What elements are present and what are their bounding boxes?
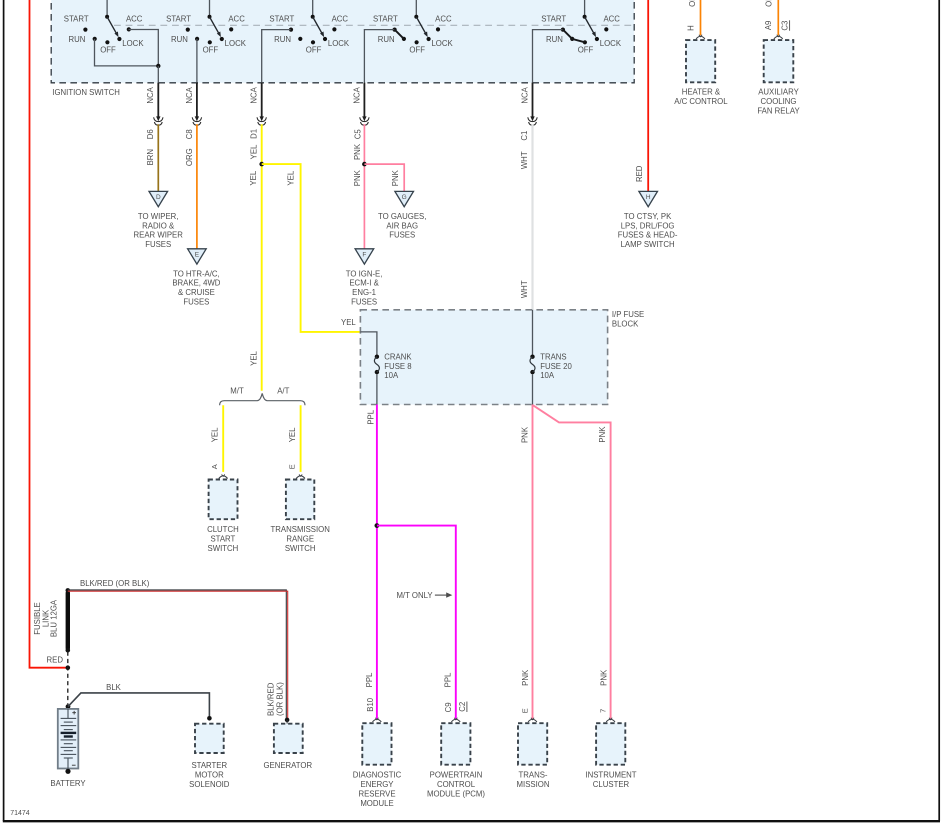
ignition switch pole 2 (RUN feed) (166, 0, 247, 55)
svg-text:71474: 71474 (10, 810, 30, 817)
svg-text:10A: 10A (384, 371, 399, 380)
svg-text:PNK: PNK (521, 426, 530, 443)
transmission box (518, 723, 547, 765)
powertrain control module box (441, 723, 470, 765)
svg-text:RUN: RUN (69, 35, 86, 44)
svg-text:TO IGN-E,: TO IGN-E, (346, 269, 383, 278)
svg-text:LOCK: LOCK (328, 39, 350, 48)
svg-text:WHT: WHT (520, 280, 529, 298)
svg-text:MODULE (PCM): MODULE (PCM) (427, 790, 485, 799)
svg-text:SOLENOID: SOLENOID (189, 780, 230, 789)
svg-text:RED: RED (635, 165, 644, 182)
svg-text:C8: C8 (185, 129, 194, 139)
wire BLK battery to starter solenoid (68, 693, 209, 718)
wire RED from battery up left side (30, 0, 66, 668)
svg-text:BRN: BRN (146, 149, 155, 165)
generator box (274, 724, 303, 753)
pole 3 output wire (262, 30, 291, 83)
svg-text:INSTRUMENT: INSTRUMENT (585, 771, 636, 780)
svg-text:START: START (166, 15, 191, 24)
wire ORG to auxiliary cooling fan relay (777, 0, 779, 35)
svg-text:RESERVE: RESERVE (358, 790, 395, 799)
svg-text:ORG: ORG (764, 0, 773, 7)
svg-text:BATTERY: BATTERY (50, 779, 86, 788)
svg-text:PNK: PNK (521, 669, 530, 686)
wire WHT C1 (to I/P fuse block) (531, 124, 533, 310)
connector triangle G (395, 191, 414, 206)
junction at generator (285, 718, 290, 723)
junction PNK branch (362, 162, 367, 167)
wire YEL to transmission range switch (300, 405, 302, 472)
svg-text:NCA: NCA (250, 86, 259, 103)
brace M/T A/T split (220, 393, 305, 405)
svg-text:NCA: NCA (520, 86, 529, 103)
svg-text:PNK: PNK (598, 426, 607, 443)
svg-text:RUN: RUN (274, 35, 291, 44)
svg-text:OFF: OFF (100, 46, 116, 55)
svg-text:OFF: OFF (306, 46, 322, 55)
connector at instrument cluster (pin 7) (606, 719, 615, 722)
wire YEL branch to I/P fuse block (262, 164, 361, 332)
svg-text:TRANS-: TRANS- (518, 771, 547, 780)
auxiliary cooling fan relay box (764, 40, 794, 82)
svg-text:YEL: YEL (250, 350, 259, 365)
pole 2 output wire (196, 39, 198, 83)
svg-text:SWITCH: SWITCH (208, 544, 239, 553)
dashed link battery positive (67, 652, 69, 705)
svg-text:7: 7 (598, 709, 607, 713)
svg-text:ACC: ACC (435, 15, 452, 24)
pole 5 output wire (533, 30, 563, 83)
svg-text:RUN: RUN (171, 35, 188, 44)
wire RED (battery feed to headlamp switch) (647, 0, 649, 195)
svg-text:NCA: NCA (185, 86, 194, 103)
svg-text:IGNITION SWITCH: IGNITION SWITCH (52, 88, 120, 97)
svg-text:E: E (287, 464, 296, 469)
fuse CRANK FUSE 8 10A (375, 355, 379, 359)
junction YEL branch (259, 162, 264, 167)
svg-text:ORG: ORG (185, 148, 194, 166)
heater & A/C control box (686, 40, 715, 82)
svg-text:10A: 10A (540, 371, 555, 380)
ignition switch pole 4 (START feed, RUN bridge) (373, 0, 454, 55)
junction pole 1 output (156, 64, 160, 68)
svg-text:C3: C3 (781, 21, 790, 31)
svg-text:FUSES & HEAD-: FUSES & HEAD- (618, 231, 678, 240)
svg-text:H: H (646, 194, 651, 201)
wire PNK C5 (to IGN-E fuses) (363, 124, 365, 252)
svg-text:TO GAUGES,: TO GAUGES, (378, 212, 426, 221)
svg-text:F: F (362, 251, 366, 258)
inline connector wire 3 (261, 83, 263, 117)
svg-text:BLOCK: BLOCK (612, 320, 639, 329)
svg-text:YEL: YEL (250, 144, 259, 159)
svg-text:GENERATOR: GENERATOR (263, 761, 312, 770)
svg-text:RANGE: RANGE (286, 535, 314, 544)
svg-text:D1: D1 (250, 129, 259, 139)
svg-text:M/T ONLY: M/T ONLY (396, 591, 433, 600)
svg-text:PPL: PPL (365, 672, 374, 687)
battery (66, 704, 71, 709)
wire ORG to heater control (700, 0, 702, 35)
svg-text:START: START (373, 15, 398, 24)
starter motor solenoid box (195, 724, 224, 753)
connector at transmission range switch (pin E) (296, 476, 305, 479)
ignition switch pole 5 (START feed, RUN-OFF bridge) (541, 0, 622, 55)
svg-text:FUSES: FUSES (183, 298, 209, 307)
svg-text:D6: D6 (146, 129, 155, 139)
svg-text:A: A (210, 464, 219, 469)
svg-text:M/T: M/T (230, 387, 244, 396)
wire ORG C8 (to HTR-A/C fuses) (196, 124, 198, 252)
crank fuse feed wiring (360, 332, 377, 405)
svg-text:LAMP SWITCH: LAMP SWITCH (621, 240, 675, 249)
ignition switch pole 1 (ACC/RUN feed) (64, 0, 145, 55)
svg-text:A/T: A/T (277, 387, 289, 396)
pole 4 output wire (364, 30, 394, 83)
svg-text:REAR WIPER: REAR WIPER (134, 231, 184, 240)
svg-text:ACC: ACC (332, 15, 349, 24)
junction at starter motor solenoid (207, 716, 212, 721)
svg-text:YEL: YEL (249, 170, 258, 185)
svg-text:LOCK: LOCK (225, 39, 247, 48)
svg-text:LPS, DRL/FOG: LPS, DRL/FOG (621, 221, 675, 230)
svg-text:H: H (686, 25, 695, 31)
connector at heater control (696, 36, 705, 39)
transmission range switch box (286, 480, 314, 520)
wire PNK branch to gauges fuses (364, 164, 404, 193)
ignition switch pole 3 (START feed) (269, 0, 350, 55)
svg-text:A9: A9 (764, 21, 773, 31)
svg-text:YEL: YEL (287, 170, 296, 185)
svg-text:ECM-I &: ECM-I & (349, 279, 379, 288)
connector triangle F (355, 249, 374, 264)
svg-text:YEL: YEL (288, 427, 297, 442)
svg-text:CONTROL: CONTROL (437, 780, 476, 789)
svg-text:YEL: YEL (341, 318, 356, 327)
svg-text:NCA: NCA (352, 86, 361, 103)
detent dashed guide line (114, 24, 633, 26)
svg-text:DIAGNOSTIC: DIAGNOSTIC (353, 771, 402, 780)
ignition switch assembly box (51, 0, 634, 83)
svg-text:FUSES: FUSES (145, 240, 171, 249)
svg-text:ACC: ACC (228, 15, 245, 24)
svg-text:START: START (210, 535, 235, 544)
inline connector wire 1 (157, 83, 159, 117)
I/P fuse block (360, 310, 607, 405)
junction PPL branch (375, 523, 380, 528)
clutch start switch box (209, 480, 238, 520)
connector at clutch start switch (pin A) (219, 476, 228, 479)
svg-text:LOCK: LOCK (122, 39, 144, 48)
wire BRN D6 (to wiper/radio fuses) (157, 124, 159, 194)
svg-text:PPL: PPL (367, 409, 376, 424)
svg-text:RADIO &: RADIO & (142, 221, 175, 230)
trans fuse feed wiring (532, 310, 534, 405)
svg-text:BLK: BLK (106, 683, 122, 692)
svg-text:HEATER &: HEATER & (682, 88, 721, 97)
svg-text:CRANK: CRANK (384, 353, 412, 362)
svg-text:E: E (195, 251, 200, 258)
svg-text:BRAKE, 4WD: BRAKE, 4WD (172, 279, 220, 288)
connector triangle E (188, 249, 207, 264)
connector at fan relay (774, 36, 783, 39)
svg-text:LOCK: LOCK (431, 39, 453, 48)
svg-text:D: D (156, 194, 161, 201)
inline connector wire 5 (532, 83, 534, 117)
pole 1 contact wiring to output node (95, 30, 159, 66)
svg-text:G: G (402, 194, 407, 201)
svg-text:(OR BLK): (OR BLK) (275, 682, 284, 716)
svg-text:CLUTCH: CLUTCH (207, 525, 239, 534)
wire PNK branch to instrument cluster (533, 405, 611, 719)
inline connector wire 4 (363, 83, 365, 117)
svg-text:C9: C9 (444, 702, 453, 712)
svg-text:I/P FUSE: I/P FUSE (612, 310, 644, 319)
svg-text:COOLING: COOLING (761, 97, 797, 106)
svg-text:CLUSTER: CLUSTER (593, 780, 630, 789)
svg-text:PNK: PNK (353, 169, 362, 186)
svg-text:FUSE 8: FUSE 8 (384, 362, 411, 371)
svg-text:STARTER: STARTER (191, 761, 227, 770)
svg-text:MODULE: MODULE (360, 799, 393, 808)
svg-text:TO HTR-A/C,: TO HTR-A/C, (173, 269, 220, 278)
svg-text:OFF: OFF (203, 46, 219, 55)
svg-text:TO CTSY, PK: TO CTSY, PK (624, 212, 672, 221)
svg-text:START: START (269, 15, 294, 24)
svg-text:AUXILIARY: AUXILIARY (758, 88, 799, 97)
svg-text:NCA: NCA (146, 86, 155, 103)
svg-text:TO WIPER,: TO WIPER, (138, 212, 179, 221)
svg-text:TRANSMISSION: TRANSMISSION (271, 525, 330, 534)
svg-text:PPL: PPL (444, 672, 453, 687)
svg-text:SWITCH: SWITCH (285, 544, 316, 553)
svg-text:LOCK: LOCK (600, 39, 622, 48)
svg-text:C2: C2 (458, 702, 467, 712)
connector at DERM (pin B10) (373, 719, 382, 722)
instrument cluster box (596, 723, 625, 765)
connector at PCM (pin C9) (451, 719, 460, 722)
wire PNK from trans fuse to transmission (532, 405, 534, 720)
svg-text:ACC: ACC (603, 15, 620, 24)
svg-text:OFF: OFF (578, 46, 594, 55)
connector triangle H (639, 191, 658, 206)
connector at transmission (pin E) (528, 719, 537, 722)
fuse TRANS FUSE 20 10A (530, 355, 534, 359)
svg-text:POWERTRAIN: POWERTRAIN (430, 771, 483, 780)
svg-text:RUN: RUN (378, 35, 395, 44)
svg-text:E: E (521, 708, 530, 713)
svg-text:FUSE 20: FUSE 20 (540, 362, 572, 371)
svg-text:BLK/RED: BLK/RED (266, 682, 275, 716)
svg-text:MOTOR: MOTOR (195, 770, 224, 779)
junction red feed / fusible link (66, 665, 71, 670)
svg-text:RED: RED (47, 656, 64, 665)
svg-text:A/C CONTROL: A/C CONTROL (674, 97, 728, 106)
svg-text:ORG: ORG (688, 0, 697, 7)
svg-text:MISSION: MISSION (517, 780, 550, 789)
connector triangle D (149, 191, 168, 206)
svg-text:START: START (64, 15, 89, 24)
svg-text:& CRUISE: & CRUISE (178, 288, 215, 297)
svg-text:ENERGY: ENERGY (361, 780, 395, 789)
diagnostic energy reserve module box (362, 723, 391, 765)
svg-text:YEL: YEL (211, 427, 220, 442)
wire YEL to clutch start switch (222, 405, 224, 472)
svg-text:FUSES: FUSES (351, 298, 377, 307)
svg-text:C1: C1 (520, 131, 529, 141)
svg-text:START: START (541, 15, 566, 24)
svg-text:BLU 12GA: BLU 12GA (50, 599, 59, 637)
svg-text:C5: C5 (354, 129, 363, 140)
svg-text:PNK: PNK (391, 169, 400, 186)
svg-text:FAN RELAY: FAN RELAY (757, 107, 800, 116)
inline connector wire 2 (196, 83, 198, 117)
svg-text:BLK/RED (OR BLK): BLK/RED (OR BLK) (80, 579, 150, 588)
svg-text:ENG-1: ENG-1 (352, 288, 376, 297)
svg-text:WHT: WHT (520, 151, 529, 169)
svg-text:ACC: ACC (126, 15, 143, 24)
svg-text:PNK: PNK (353, 143, 362, 160)
wire PPL branch to PCM (377, 526, 456, 720)
svg-text:RUN: RUN (546, 35, 563, 44)
svg-text:B10: B10 (366, 697, 375, 712)
wire YEL D1 (start signal) (261, 124, 263, 391)
wire PPL from crank fuse (376, 405, 378, 720)
svg-text:AIR BAG: AIR BAG (386, 221, 418, 230)
svg-text:PNK: PNK (600, 669, 609, 686)
svg-text:TRANS: TRANS (540, 353, 566, 362)
svg-text:OFF: OFF (409, 46, 425, 55)
svg-text:FUSES: FUSES (389, 231, 415, 240)
